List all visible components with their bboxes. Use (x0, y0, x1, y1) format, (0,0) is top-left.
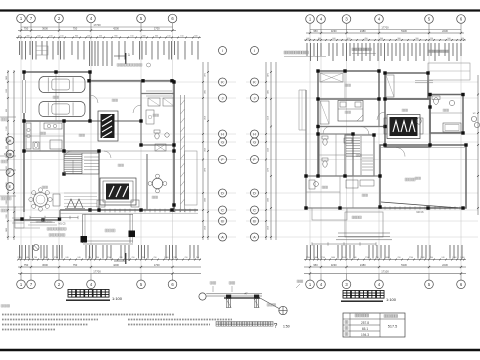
svg-text:1970: 1970 (205, 168, 207, 172)
svg-text:300: 300 (380, 38, 383, 40)
svg-text:G: G (253, 140, 256, 144)
svg-text:760: 760 (184, 257, 187, 259)
svg-text:1:50: 1:50 (283, 325, 290, 329)
svg-text:1950: 1950 (205, 148, 207, 152)
svg-text:300: 300 (397, 38, 400, 40)
right plan bottom axis circles (306, 274, 466, 289)
svg-text:240: 240 (342, 257, 345, 259)
svg-text:2492: 2492 (268, 90, 270, 94)
right edge small circles (471, 113, 479, 128)
svg-text:150: 150 (130, 35, 133, 37)
svg-text:760: 760 (397, 257, 400, 259)
svg-text:1060: 1060 (331, 257, 335, 259)
svg-text:240: 240 (65, 257, 68, 259)
svg-text:1918: 1918 (205, 116, 207, 120)
svg-text:1500: 1500 (6, 89, 8, 93)
svg-text:900: 900 (6, 166, 8, 169)
left door swing arcs (64, 95, 141, 159)
svg-text:4200: 4200 (113, 263, 119, 267)
svg-text:2480: 2480 (360, 263, 366, 267)
row axis circles col right (251, 47, 259, 242)
left stairs (64, 153, 99, 174)
svg-text:D: D (221, 191, 224, 195)
svg-text:65.1: 65.1 (362, 327, 368, 331)
garage car 1 (39, 77, 85, 93)
svg-text:2740: 2740 (321, 257, 325, 259)
right plan door arcs (323, 112, 405, 157)
svg-text:2518: 2518 (268, 116, 270, 120)
svg-text:2740: 2740 (365, 257, 369, 259)
bed bedroom2 (338, 101, 363, 122)
svg-text:240: 240 (96, 257, 99, 259)
svg-text:2740: 2740 (420, 257, 424, 259)
round dining table (29, 188, 52, 211)
room name labels (40, 84, 449, 199)
left plan bottom axis circles (17, 274, 177, 289)
water meter box top left (36, 46, 48, 55)
svg-text:M2 C6: M2 C6 (416, 211, 424, 214)
svg-text:1700: 1700 (154, 263, 160, 267)
right stairs (346, 136, 373, 175)
svg-text:150: 150 (87, 35, 90, 37)
svg-text:760: 760 (131, 257, 134, 259)
svg-text:1060: 1060 (460, 257, 464, 259)
title first floor plan (66, 290, 123, 302)
svg-text:1:100: 1:100 (112, 296, 123, 301)
entry hatched cabinet (98, 111, 118, 141)
svg-text:600: 600 (306, 38, 309, 40)
right plan top witness lines (307, 43, 461, 61)
master sofa hatched (384, 115, 423, 139)
svg-text:17700: 17700 (93, 23, 101, 27)
right plan wardrobes (320, 73, 394, 124)
svg-text:900: 900 (6, 146, 8, 149)
left plan columns (20, 70, 175, 221)
right plan bottom dimension lines (304, 257, 466, 274)
right plan fixtures (309, 96, 461, 189)
svg-text:2400: 2400 (6, 76, 8, 80)
tv wall hatched (97, 178, 139, 207)
left plan left dimension lines (6, 70, 15, 240)
svg-text:1:100: 1:100 (386, 297, 397, 302)
svg-text:900: 900 (142, 35, 145, 37)
svg-text:17700: 17700 (381, 25, 389, 29)
svg-text:J: J (222, 96, 224, 100)
family round table (148, 174, 167, 193)
svg-text:600: 600 (332, 38, 335, 40)
svg-text:2600: 2600 (268, 198, 270, 202)
svg-text:17100: 17100 (381, 269, 389, 273)
svg-text:900: 900 (6, 109, 8, 112)
svg-text:?: ? (274, 323, 278, 330)
right plan top annotations (284, 48, 449, 57)
right plan bottom witness lines (307, 245, 462, 259)
right plan under-wall annotations (312, 211, 424, 246)
porch below left plan (81, 214, 136, 244)
svg-text:J: J (254, 96, 256, 100)
left plan under-wall annotations (30, 216, 115, 251)
svg-text:I: I (222, 49, 223, 53)
svg-text:17700: 17700 (93, 269, 101, 273)
svg-text:G: G (221, 140, 224, 144)
svg-text:H: H (221, 132, 224, 136)
pipe detail drawing (199, 280, 303, 315)
svg-text:3300: 3300 (6, 214, 8, 218)
living room label (405, 178, 415, 181)
border top line (0, 9, 480, 11)
left plan bottom dimension lines (17, 257, 201, 274)
svg-text:900: 900 (447, 38, 450, 40)
svg-text:H: H (9, 139, 12, 143)
svg-text:2550: 2550 (268, 148, 270, 152)
svg-text:2740: 2740 (107, 257, 111, 259)
upstairs small bath fixtures (154, 130, 169, 151)
left margin tiny note (1, 305, 10, 308)
left plan top dimension lines (16, 23, 201, 38)
svg-text:194.3: 194.3 (361, 333, 369, 337)
svg-text:950: 950 (313, 263, 318, 267)
svg-text:750: 750 (24, 263, 29, 267)
detail title text (216, 322, 290, 330)
svg-text:2740: 2740 (306, 257, 310, 259)
left plan walls (12, 72, 198, 228)
svg-text:3300: 3300 (6, 200, 8, 204)
svg-text:2570: 2570 (268, 168, 270, 172)
svg-text:750: 750 (73, 263, 78, 267)
svg-text:240: 240 (441, 257, 444, 259)
svg-text:2475: 2475 (268, 73, 270, 77)
svg-text:450: 450 (347, 38, 350, 40)
svg-text:517.5: 517.5 (388, 325, 398, 329)
right plan left dimension lines (265, 62, 276, 240)
right plan top axis circles (306, 15, 466, 33)
svg-text:150: 150 (167, 35, 170, 37)
right plan columns (304, 69, 467, 209)
svg-text:450: 450 (364, 38, 367, 40)
mid strip dimension labels (205, 73, 270, 230)
svg-text:C: C (253, 208, 256, 212)
svg-text:1: 1 (128, 53, 130, 57)
svg-text:1: 1 (128, 258, 130, 262)
svg-text:150: 150 (49, 35, 52, 37)
svg-text:3230: 3230 (331, 263, 337, 267)
section mark 1 bottom (114, 253, 130, 264)
svg-text:5330: 5330 (401, 263, 407, 267)
row axis circles col left (219, 47, 227, 242)
svg-text:H: H (253, 132, 256, 136)
right plan right dimension line (477, 75, 479, 215)
left plan left axis circles (6, 137, 14, 191)
svg-text:900: 900 (75, 35, 78, 37)
svg-text:1060: 1060 (385, 257, 389, 259)
garage car 2 (39, 102, 85, 117)
left plan right dimension lines (202, 62, 209, 240)
svg-text:240: 240 (77, 257, 80, 259)
svg-text:450: 450 (18, 35, 21, 37)
svg-text:300: 300 (415, 38, 418, 40)
svg-text:900: 900 (114, 35, 117, 37)
svg-text:450: 450 (461, 38, 464, 40)
svg-text:2400: 2400 (6, 228, 8, 232)
svg-text:240: 240 (430, 257, 433, 259)
svg-text:M1 C5: M1 C5 (58, 223, 66, 226)
svg-text:3600: 3600 (42, 263, 48, 267)
svg-text:C: C (221, 208, 224, 212)
svg-text:600: 600 (37, 35, 40, 37)
right plan walls (299, 63, 470, 240)
svg-text:760: 760 (153, 257, 156, 259)
svg-text:300: 300 (155, 35, 158, 37)
svg-text:2628: 2628 (268, 226, 270, 230)
left plan bottom witness lines (20, 245, 199, 259)
double door M (65, 199, 85, 209)
svg-text:150: 150 (180, 35, 183, 37)
svg-text:900: 900 (318, 38, 321, 40)
svg-text:D: D (253, 191, 256, 195)
axis grid lines (6, 23, 478, 281)
svg-text:450: 450 (99, 35, 102, 37)
svg-text:2230: 2230 (442, 263, 448, 267)
living room diagonal line (381, 202, 458, 208)
svg-text:2028: 2028 (205, 226, 207, 230)
svg-text:150: 150 (60, 35, 63, 37)
svg-text:240: 240 (25, 257, 28, 259)
svg-text:157.90: 157.90 (4, 152, 12, 156)
title second floor plan (341, 291, 397, 303)
left margin annotation fragments (0, 117, 16, 212)
svg-text:2740: 2740 (409, 257, 413, 259)
left plan top witness lines (20, 41, 199, 66)
entry head text (117, 63, 151, 67)
svg-text:300: 300 (26, 35, 29, 37)
left plan top axis circles (17, 14, 177, 30)
svg-text:240: 240 (44, 257, 47, 259)
svg-text:150: 150 (430, 38, 433, 40)
svg-text:2740: 2740 (54, 257, 58, 259)
svg-text:1060: 1060 (164, 257, 168, 259)
svg-text:240: 240 (196, 257, 199, 259)
area summary table (343, 313, 405, 337)
svg-text:600: 600 (194, 35, 197, 37)
svg-text:1875: 1875 (205, 73, 207, 77)
svg-text:257.8: 257.8 (361, 321, 369, 325)
svg-text:I: I (254, 49, 255, 53)
notes text block (2, 315, 232, 330)
svg-text:1892: 1892 (205, 90, 207, 94)
svg-text:1060: 1060 (452, 257, 456, 259)
border bottom line (0, 349, 480, 352)
section mark 1 top (114, 53, 130, 64)
svg-text:2000: 2000 (205, 198, 207, 202)
lower hatch steps (64, 193, 97, 210)
svg-text:1500: 1500 (6, 126, 8, 130)
svg-text:760: 760 (34, 257, 37, 259)
right plan top dimension lines (304, 25, 466, 41)
left plan dressers (146, 98, 174, 124)
left kitchen and bath fixtures (26, 123, 62, 149)
